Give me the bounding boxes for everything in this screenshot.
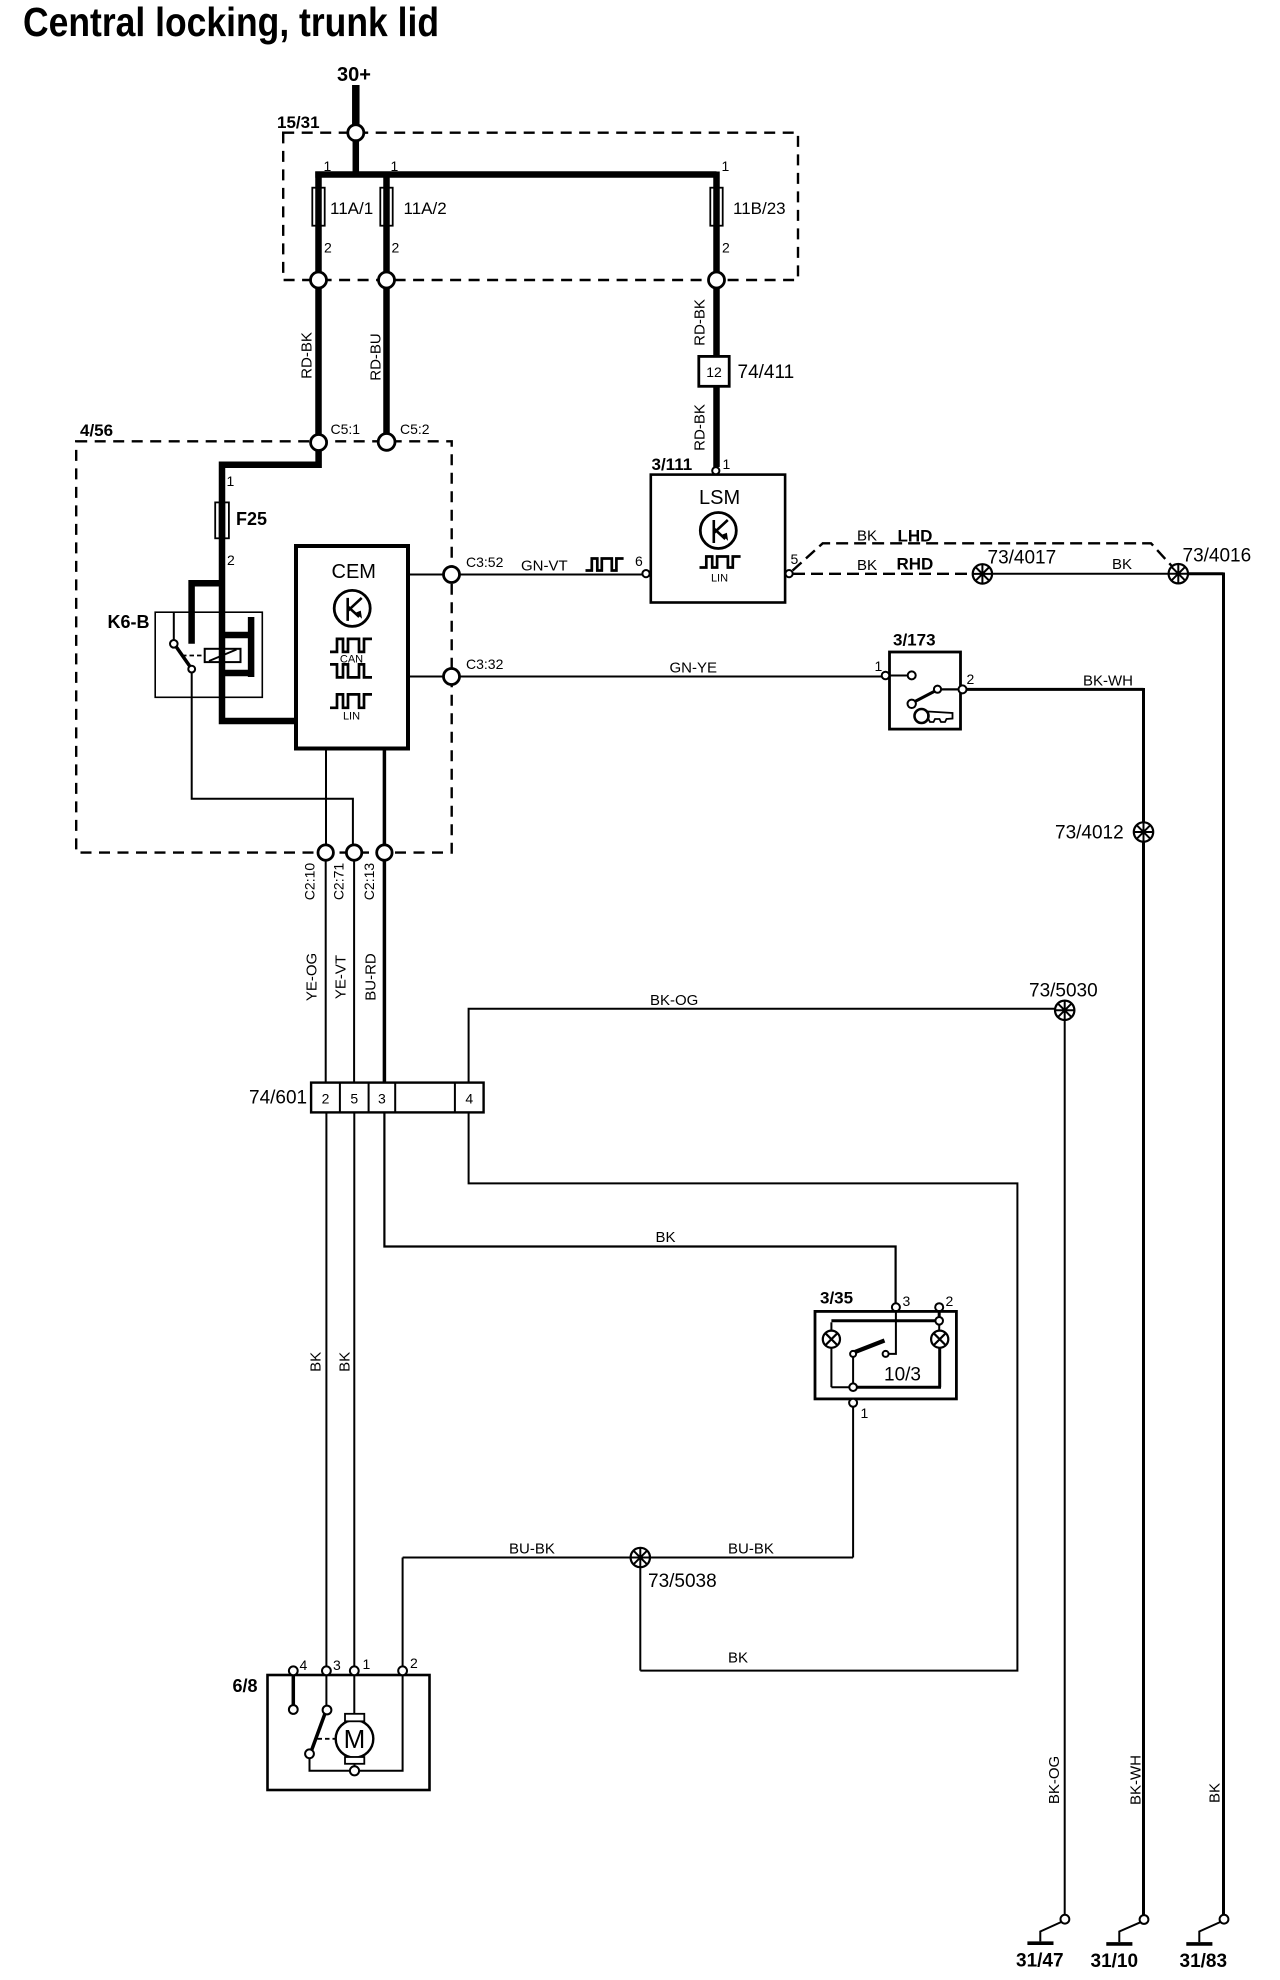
wire GN-VT CEM to LSM [460, 574, 643, 576]
svg-text:GN-YE: GN-YE [670, 660, 718, 677]
svg-text:BU-BK: BU-BK [509, 1541, 555, 1558]
fuse 11B/23 [710, 188, 722, 226]
connector circle C2:13 [377, 845, 392, 860]
wire BU-BK down to 6/8 [402, 1558, 404, 1667]
connector circle C3:32 [444, 669, 460, 685]
wire BK-WH from 3/173 [967, 688, 1144, 823]
motor M 6/8 [336, 1720, 374, 1758]
svg-text:31/83: 31/83 [1180, 1951, 1228, 1972]
svg-text:YE-VT: YE-VT [332, 955, 349, 999]
svg-text:73/5030: 73/5030 [1029, 981, 1098, 1002]
svg-text:RD-BK: RD-BK [691, 404, 708, 451]
wire bus 3/35 [831, 1311, 939, 1321]
wire pin 1 to motor [353, 1675, 355, 1716]
wire K6-B switch to C2:71 [192, 673, 353, 846]
pin 4 6/8 [289, 1666, 298, 1675]
pin 1 LSM [712, 467, 719, 474]
dashed link K6-B [182, 655, 204, 657]
CAN wave lower [330, 664, 372, 677]
svg-text:2: 2 [322, 1091, 330, 1107]
pin 2 3/173 [959, 685, 967, 693]
svg-text:C2:71: C2:71 [330, 863, 346, 901]
stub pin 4 [292, 1675, 296, 1704]
svg-text:M: M [344, 1724, 366, 1754]
connector circle C2:71 [346, 845, 361, 860]
wire BK RHD dashed [793, 573, 972, 575]
pin C3:32 stub [408, 676, 444, 678]
svg-text:10/3: 10/3 [884, 1365, 921, 1386]
connector circle C5:1 [311, 435, 327, 451]
CAN wave upper [330, 639, 372, 652]
svg-text:2: 2 [324, 240, 332, 256]
svg-text:LHD: LHD [898, 527, 933, 546]
svg-text:2: 2 [392, 240, 400, 256]
switch arm 3/173 [913, 691, 936, 703]
wire BK pin2 down [325, 1112, 327, 1666]
svg-text:CEM: CEM [332, 561, 376, 583]
svg-text:BK-WH: BK-WH [1127, 1755, 1144, 1805]
svg-text:1: 1 [363, 1656, 371, 1672]
junction 3/35 [849, 1383, 857, 1391]
wire BK LHD dashed [793, 543, 1173, 570]
svg-text:BK: BK [1112, 556, 1132, 573]
svg-text:BU-BK: BU-BK [728, 1541, 774, 1558]
pulse wave GN-VT [586, 559, 624, 571]
lamp left 3/35 [830, 1322, 832, 1330]
pin 1 3/35 [849, 1399, 857, 1407]
wire BK between splices [992, 573, 1168, 575]
svg-text:BK-OG: BK-OG [650, 992, 698, 1009]
svg-text:30+: 30+ [337, 64, 371, 86]
svg-text:2: 2 [722, 240, 730, 256]
wire relay coil hook [222, 617, 251, 677]
connector circle 15/31 bottom left [311, 272, 327, 288]
wire pivot stub K6-B [173, 612, 175, 640]
pin 2 6/8 [398, 1666, 407, 1675]
svg-text:73/4017: 73/4017 [988, 548, 1057, 569]
wire BU-RD [383, 860, 387, 1082]
wire 3/35 pin1 down [852, 1407, 854, 1558]
ground 31/10 [1140, 1915, 1149, 1924]
pin 3 3/35 [892, 1303, 900, 1311]
svg-text:BK: BK [857, 557, 877, 574]
connector circle 15/31 top [348, 125, 364, 141]
connector circle C2:10 [318, 845, 333, 860]
svg-text:1: 1 [861, 1405, 869, 1421]
svg-text:74/601: 74/601 [249, 1088, 307, 1109]
pin 1 3/173 [882, 672, 890, 680]
wire switch to motor junction to pin 2 [310, 1675, 403, 1771]
fuse F25 [215, 502, 229, 538]
wire 30+ feed [352, 85, 360, 132]
svg-text:3/173: 3/173 [893, 631, 936, 650]
svg-text:2: 2 [410, 1655, 418, 1671]
svg-text:31/10: 31/10 [1091, 1951, 1139, 1972]
wire GN-YE [460, 676, 882, 678]
switch arm K6-B [176, 647, 190, 667]
relay coil K6-B [205, 649, 241, 662]
svg-text:73/4012: 73/4012 [1055, 823, 1124, 844]
wire BU-BK [403, 1557, 631, 1559]
svg-text:1: 1 [722, 158, 730, 174]
connector circle C3:52 [444, 567, 460, 583]
wire BK-OG to ground 31/47 [1064, 1020, 1066, 1914]
svg-text:BK: BK [336, 1352, 353, 1372]
wire YE-OG [325, 860, 327, 1082]
wire fuse lead 11A/2 [383, 172, 390, 273]
svg-text:1: 1 [324, 158, 332, 174]
dashed link 6/8 [318, 1738, 336, 1740]
svg-text:73/5038: 73/5038 [648, 1571, 717, 1592]
svg-text:11B/23: 11B/23 [733, 199, 786, 218]
wire BK loop pin4 to 73/5038 [469, 1112, 1018, 1670]
svg-text:6/8: 6/8 [233, 1676, 258, 1696]
svg-text:RD-BK: RD-BK [298, 332, 315, 379]
svg-text:LIN: LIN [711, 573, 728, 585]
wire BK to ground 31/83 [1188, 573, 1223, 1915]
wire supply C5:1 to CEM via F25 [222, 451, 319, 722]
svg-text:RHD: RHD [897, 555, 934, 574]
svg-text:F25: F25 [236, 509, 267, 529]
svg-text:3/111: 3/111 [652, 455, 693, 474]
svg-text:2: 2 [967, 671, 975, 687]
svg-text:3: 3 [903, 1293, 911, 1309]
svg-text:74/411: 74/411 [738, 362, 795, 383]
switch arm 3/35 [889, 1312, 896, 1354]
wire 30+ bus [315, 141, 716, 175]
wire YE-VT [353, 860, 355, 1082]
svg-text:BK: BK [656, 1229, 676, 1246]
key symbol 3/173 [915, 709, 953, 723]
svg-text:4: 4 [300, 1657, 308, 1673]
pin 3 6/8 [322, 1666, 331, 1675]
svg-text:LSM: LSM [699, 487, 740, 509]
svg-text:15/31: 15/31 [277, 113, 320, 132]
svg-text:BU-RD: BU-RD [362, 953, 379, 1001]
wire splice to BK loop [639, 1567, 641, 1670]
svg-text:BK: BK [1206, 1783, 1223, 1803]
junction 6/8 bottom [350, 1766, 359, 1775]
splice 73/4016 [1169, 564, 1188, 583]
svg-text:RD-BK: RD-BK [691, 299, 708, 346]
connector circle 15/31 bottom mid [379, 272, 395, 288]
svg-text:3: 3 [378, 1091, 386, 1107]
connector circle 15/31 bottom right [709, 272, 725, 288]
svg-text:C5:1: C5:1 [331, 421, 361, 437]
wire fuse lead 11B/23 [713, 172, 720, 273]
svg-text:5: 5 [791, 551, 799, 567]
connector circle C5:2 [378, 434, 395, 451]
svg-text:6: 6 [635, 553, 643, 569]
control module CEM [296, 546, 408, 749]
ground 31/47 [1061, 1915, 1070, 1924]
svg-text:12: 12 [706, 364, 722, 380]
wire RD-BK right upper [713, 288, 720, 357]
wire BK pin5 down [353, 1112, 355, 1666]
wire motor bottom [354, 1764, 356, 1767]
svg-text:Central locking, trunk lid: Central locking, trunk lid [23, 0, 439, 45]
connector 74/411 pin 12 [699, 356, 729, 386]
wire fuse lead 11A/1 [315, 172, 322, 273]
svg-text:11A/2: 11A/2 [404, 199, 447, 218]
svg-text:GN-VT: GN-VT [521, 558, 568, 575]
pin 6 LSM [642, 570, 649, 577]
svg-text:LIN: LIN [343, 711, 360, 723]
switch pivot K6-B [170, 640, 178, 648]
wire BK pin3 to 3/35 [384, 1112, 895, 1303]
lamp right 3/35 [938, 1325, 940, 1331]
svg-text:1: 1 [227, 473, 235, 489]
svg-text:2: 2 [946, 1293, 954, 1309]
svg-text:BK-OG: BK-OG [1046, 1756, 1063, 1804]
svg-text:3/35: 3/35 [820, 1289, 853, 1308]
ground 31/83 [1220, 1915, 1229, 1924]
svg-text:C3:52: C3:52 [466, 554, 504, 570]
switch 6/8 [325, 1675, 327, 1705]
splice 73/4012 [1134, 822, 1153, 841]
svg-text:31/47: 31/47 [1016, 1951, 1064, 1972]
fuse 11A/1 [312, 188, 324, 226]
svg-text:1: 1 [391, 158, 399, 174]
LIN wave LSM [700, 557, 741, 568]
svg-text:BK-WH: BK-WH [1083, 673, 1133, 690]
svg-text:BK: BK [857, 528, 877, 545]
pin 2 3/35 [935, 1303, 943, 1311]
pin 5 LSM [786, 570, 793, 577]
svg-text:K6-B: K6-B [108, 612, 150, 632]
wire relay feed branch [192, 580, 222, 644]
splice 73/4017 [973, 564, 992, 583]
splice 73/5030 [1055, 1001, 1074, 1020]
wire RD-BK left [315, 288, 322, 435]
svg-text:73/4016: 73/4016 [1183, 546, 1252, 567]
svg-text:4/56: 4/56 [80, 421, 113, 440]
svg-text:BK: BK [308, 1352, 325, 1372]
wire RD-BK right lower [713, 386, 720, 467]
CEM bottom stub C2:13 [383, 749, 387, 846]
CEM bottom stub C2:10 [325, 749, 327, 846]
svg-text:2: 2 [227, 552, 235, 568]
splice 73/5038 [631, 1548, 650, 1567]
pin 1 6/8 [350, 1666, 359, 1675]
svg-text:4: 4 [465, 1091, 473, 1107]
pin C3:52 stub [408, 574, 444, 576]
svg-text:C2:10: C2:10 [302, 863, 318, 901]
svg-text:1: 1 [723, 456, 731, 472]
svg-text:5: 5 [350, 1091, 358, 1107]
wire BK-OG upper [469, 1009, 1055, 1083]
svg-text:1: 1 [875, 658, 883, 674]
contact 3/173 [890, 675, 909, 677]
wire RD-BU [383, 288, 390, 434]
svg-text:C3:32: C3:32 [466, 656, 504, 672]
svg-text:YE-OG: YE-OG [304, 953, 321, 1001]
svg-text:C2:13: C2:13 [361, 863, 377, 901]
svg-text:3: 3 [333, 1657, 341, 1673]
svg-text:BK: BK [728, 1650, 748, 1667]
wire BK-WH to ground 31/10 [1142, 842, 1145, 1915]
svg-text:RD-BU: RD-BU [367, 333, 384, 381]
svg-text:C5:2: C5:2 [400, 421, 430, 437]
svg-text:11A/1: 11A/1 [330, 199, 373, 218]
fuse 11A/2 [380, 188, 392, 226]
LIN wave CEM [330, 694, 372, 707]
switch contact K6-B [188, 666, 195, 673]
